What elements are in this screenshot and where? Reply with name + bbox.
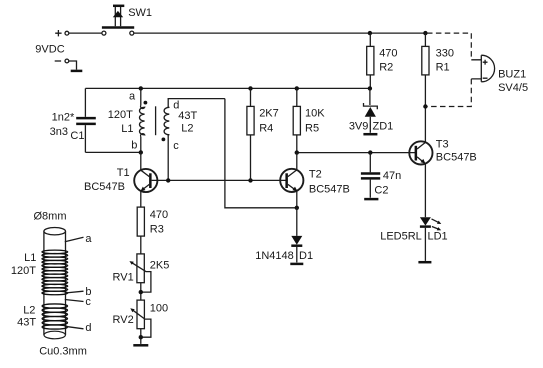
L2 phase dot (162, 138, 166, 142)
svg-text:R3: R3 (150, 224, 164, 236)
svg-text:120T: 120T (108, 109, 133, 121)
coil winding L1 (42, 250, 68, 295)
node T3 collector / dashed (423, 104, 427, 108)
svg-text:L1: L1 (24, 252, 36, 264)
wire top rail (switch to R1) (134, 32, 426, 34)
svg-text:470: 470 (379, 48, 397, 60)
coil tap c (65, 300, 84, 302)
wire oscillator rail (85, 87, 370, 89)
svg-text:T1: T1 (117, 167, 130, 179)
svg-text:1N4148: 1N4148 (255, 250, 294, 262)
svg-text:3n3: 3n3 (50, 126, 68, 138)
svg-text:470: 470 (150, 209, 168, 221)
svg-text:T3: T3 (436, 139, 449, 151)
node b (139, 150, 143, 154)
potentiometer RV1 (129, 254, 151, 300)
coil tap a (65, 237, 84, 241)
svg-text:RV2: RV2 (113, 314, 134, 326)
svg-text:a: a (129, 91, 136, 103)
transistor T2 (280, 169, 303, 208)
transistor T3 (409, 141, 432, 217)
svg-text:a: a (85, 233, 92, 245)
svg-text:L2: L2 (23, 304, 35, 316)
wire d to T2 emitter (225, 99, 297, 208)
svg-text:R5: R5 (305, 123, 319, 135)
svg-text:SW1: SW1 (128, 7, 152, 19)
wire C1 left branch (85, 88, 140, 152)
wire base line T1-T2 (152, 179, 286, 181)
svg-text:43T: 43T (178, 110, 197, 122)
battery minus terminal (55, 59, 69, 63)
transistor T1 (134, 169, 157, 207)
node R2 top (368, 31, 372, 35)
node T2 emitter (295, 206, 299, 210)
node rail R5 (295, 86, 299, 90)
transformer core (155, 106, 157, 135)
svg-text:L1: L1 (121, 123, 133, 135)
coil winding L2 (42, 304, 67, 329)
svg-text:9VDC: 9VDC (35, 43, 64, 55)
zener ZD1 (363, 88, 377, 134)
svg-text:L2: L2 (181, 122, 193, 134)
ground (LED) (418, 261, 431, 264)
svg-text:SV4/5: SV4/5 (498, 82, 528, 94)
svg-text:R2: R2 (379, 62, 393, 74)
L1 phase dot (144, 101, 148, 105)
svg-text:LD1: LD1 (428, 231, 448, 243)
svg-text:R1: R1 (436, 62, 450, 74)
battery plus terminal (55, 30, 69, 36)
inductor L2 (164, 99, 225, 181)
buzzer BUZ1 (471, 55, 494, 82)
svg-text:d: d (85, 322, 91, 334)
wire dashed to buzzer top (427, 33, 471, 60)
svg-text:ZD1: ZD1 (373, 121, 394, 133)
wire T2 collector (296, 153, 298, 170)
ground (D1) (290, 263, 303, 266)
potentiometer RV2 (130, 300, 151, 344)
svg-text:120T: 120T (11, 265, 36, 277)
capacitor C2 (361, 153, 380, 198)
svg-text:C1: C1 (70, 130, 84, 142)
ground (battery) (71, 70, 83, 73)
resistor R5 (293, 88, 300, 152)
svg-text:C2: C2 (374, 184, 388, 196)
node C2 top (368, 150, 372, 154)
node R5/T2 collector (295, 150, 299, 154)
wire dashed buzzer bottom to T3 collector (427, 79, 471, 107)
svg-text:2K7: 2K7 (259, 108, 279, 120)
capacitor C1 (76, 118, 96, 124)
svg-text:330: 330 (436, 48, 454, 60)
wire b to T1 collector (140, 152, 142, 170)
svg-text:BC547B: BC547B (436, 151, 477, 163)
switch SW1 (102, 6, 134, 35)
svg-text:b: b (131, 139, 137, 151)
resistor R2 (367, 33, 374, 88)
svg-text:Cu0.3mm: Cu0.3mm (39, 346, 87, 358)
LED LD1 (420, 217, 441, 261)
node RV1 wiper (139, 290, 143, 294)
coil tap d (65, 326, 84, 329)
svg-text:1n2*: 1n2* (52, 112, 75, 124)
svg-text:100: 100 (150, 303, 168, 315)
svg-text:c: c (85, 296, 91, 308)
resistor R4 (247, 88, 254, 180)
svg-text:43T: 43T (17, 317, 36, 329)
svg-text:R4: R4 (259, 123, 273, 135)
wire T3 base line (297, 152, 415, 154)
wire minus to ground (69, 61, 77, 70)
svg-text:T2: T2 (309, 168, 322, 180)
svg-text:Ø8mm: Ø8mm (34, 210, 67, 222)
ground (C2) (364, 198, 378, 201)
svg-text:c: c (173, 140, 179, 152)
svg-text:LED5RL: LED5RL (380, 231, 422, 243)
node R4-base (248, 178, 252, 182)
svg-text:RV1: RV1 (113, 272, 134, 284)
svg-text:3V9: 3V9 (349, 121, 369, 133)
svg-text:47n: 47n (383, 170, 401, 182)
diode D1 (291, 236, 302, 263)
inductor L1 (140, 88, 145, 152)
node R1 top (423, 31, 427, 35)
node rail R2/ZD1 (368, 86, 372, 90)
svg-text:10K: 10K (305, 108, 325, 120)
svg-text:BUZ1: BUZ1 (498, 69, 526, 81)
node RV2 wiper (139, 335, 143, 339)
node L2-base (166, 178, 170, 182)
resistor R1 (422, 33, 429, 142)
ground (RV2) (133, 344, 148, 347)
coil former tube (44, 228, 66, 339)
node rail a (139, 86, 143, 90)
svg-text:2K5: 2K5 (150, 260, 170, 272)
coil tap b (65, 291, 84, 293)
svg-text:BC547B: BC547B (84, 181, 125, 193)
wire T2 emitter to D1 (296, 208, 298, 236)
svg-text:D1: D1 (299, 250, 313, 262)
resistor R3 (137, 207, 144, 254)
node rail R4 (248, 86, 252, 90)
svg-text:BC547B: BC547B (309, 184, 350, 196)
wire plus to switch (69, 32, 102, 34)
